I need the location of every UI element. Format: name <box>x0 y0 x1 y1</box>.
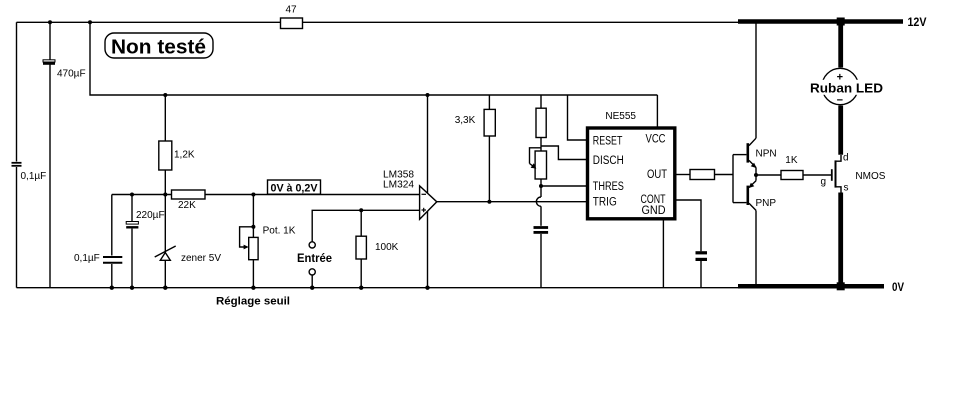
wire bottom rail thin <box>17 287 741 289</box>
svg-text:VCC: VCC <box>646 134 666 146</box>
node junction dots bottom rail <box>110 286 114 290</box>
svg-text:LM324: LM324 <box>383 180 414 191</box>
svg-text:d: d <box>843 153 849 164</box>
transistor NMOS <box>821 153 886 194</box>
svg-text:Entrée: Entrée <box>297 251 332 265</box>
capacitor 0,1µF input <box>12 163 47 182</box>
svg-text:1K: 1K <box>785 155 798 166</box>
resistor 22K <box>172 190 206 211</box>
svg-text:+: + <box>837 72 843 84</box>
svg-text:220µF: 220µF <box>136 210 165 221</box>
node 0V rail thick <box>738 280 904 294</box>
wire left vertical rail <box>16 22 18 161</box>
svg-text:Pot. 1K: Pot. 1K <box>263 226 296 237</box>
potentiometer timing <box>530 148 547 186</box>
potentiometer Pot. 1K <box>240 193 296 288</box>
wire top horizontal 12V feed <box>17 21 282 23</box>
svg-text:−: − <box>837 95 843 107</box>
zener 5V <box>155 195 222 288</box>
svg-text:PNP: PNP <box>756 198 777 209</box>
wire left branch down from threshold wire <box>111 195 113 256</box>
resistor 1,2K <box>159 95 195 195</box>
svg-text:100K: 100K <box>375 242 399 253</box>
resistor 1K <box>781 155 831 180</box>
transistor NPN <box>733 24 777 176</box>
svg-text:0V à 0,2V: 0V à 0,2V <box>271 183 319 195</box>
wire emitter node to 1K <box>756 174 781 176</box>
wire THRES <box>541 185 588 187</box>
wire NMOS source to 0V thick <box>838 193 843 288</box>
wire LED thick vertical to NMOS drain <box>838 106 843 155</box>
wire GND to bottom rail <box>662 219 664 288</box>
node junction dots top wire <box>48 20 52 24</box>
svg-text:12V: 12V <box>908 15 927 29</box>
svg-text:LM358: LM358 <box>383 169 414 180</box>
wire RESET from rail <box>568 95 588 140</box>
label 0V à 0,2V <box>268 180 321 195</box>
resistor 3,3K <box>455 95 496 202</box>
svg-text:0,1µF: 0,1µF <box>21 171 47 182</box>
svg-text:NE555: NE555 <box>605 111 636 122</box>
capacitor 220µF <box>126 195 164 288</box>
svg-text:Non testé: Non testé <box>111 37 206 59</box>
svg-text:RESET: RESET <box>593 136 623 148</box>
capacitor THRES timing <box>534 228 549 288</box>
svg-text:1,2K: 1,2K <box>174 150 195 161</box>
wire LED thick vertical top <box>838 22 843 68</box>
capacitor 0,1µF (second) <box>74 253 122 264</box>
svg-text:s: s <box>844 183 849 194</box>
wire VCC from rail <box>656 95 658 128</box>
capacitor CONT <box>696 253 708 288</box>
svg-text:NMOS: NMOS <box>855 171 885 182</box>
svg-text:470µF: 470µF <box>57 69 86 80</box>
wire THRES cap vertical with hop over TRIG <box>540 186 542 197</box>
svg-text:GND: GND <box>642 205 666 217</box>
svg-text:zener 5V: zener 5V <box>181 253 221 264</box>
label Non testé <box>105 33 213 59</box>
IC NE555 <box>588 111 675 219</box>
node 12V rail thick <box>738 15 927 29</box>
svg-text:0,1µF: 0,1µF <box>74 253 100 264</box>
wire 470uF branch vertical <box>49 22 51 60</box>
wire DISCH jog <box>541 146 588 160</box>
resistor 47 <box>281 5 303 29</box>
transistor PNP <box>733 175 776 288</box>
svg-text:g: g <box>821 177 827 188</box>
resistor base drive <box>690 170 733 180</box>
svg-text:3,3K: 3,3K <box>455 115 476 126</box>
wire op-amp power vertical <box>427 95 429 288</box>
resistor timing (on x=541) <box>536 95 546 151</box>
svg-text:22K: 22K <box>178 200 196 211</box>
op-amp U1 LM358/LM324 <box>383 169 437 219</box>
wire threshold-set horizontal <box>112 194 172 196</box>
svg-text:0V: 0V <box>892 280 904 294</box>
svg-text:TRIG: TRIG <box>593 197 617 209</box>
LED Ruban LED <box>806 68 885 106</box>
wire op-amp output to TRIG <box>437 201 588 203</box>
wire OUT to base resistor <box>675 174 690 176</box>
svg-text:Ruban LED: Ruban LED <box>810 80 883 95</box>
svg-text:THRES: THRES <box>593 181 624 193</box>
wire base node vertical <box>732 155 734 203</box>
svg-text:DISCH: DISCH <box>593 155 624 167</box>
wire vertical at x=90 to mid rail <box>90 22 657 95</box>
terminal Entrée <box>297 210 420 287</box>
capacitor 470µF <box>43 60 86 80</box>
svg-text:47: 47 <box>285 5 297 16</box>
resistor 100K <box>356 208 399 287</box>
svg-text:OUT: OUT <box>647 169 667 181</box>
svg-text:Réglage seuil: Réglage seuil <box>216 296 290 308</box>
svg-text:NPN: NPN <box>756 149 777 160</box>
wire CONT to cap <box>675 200 701 251</box>
